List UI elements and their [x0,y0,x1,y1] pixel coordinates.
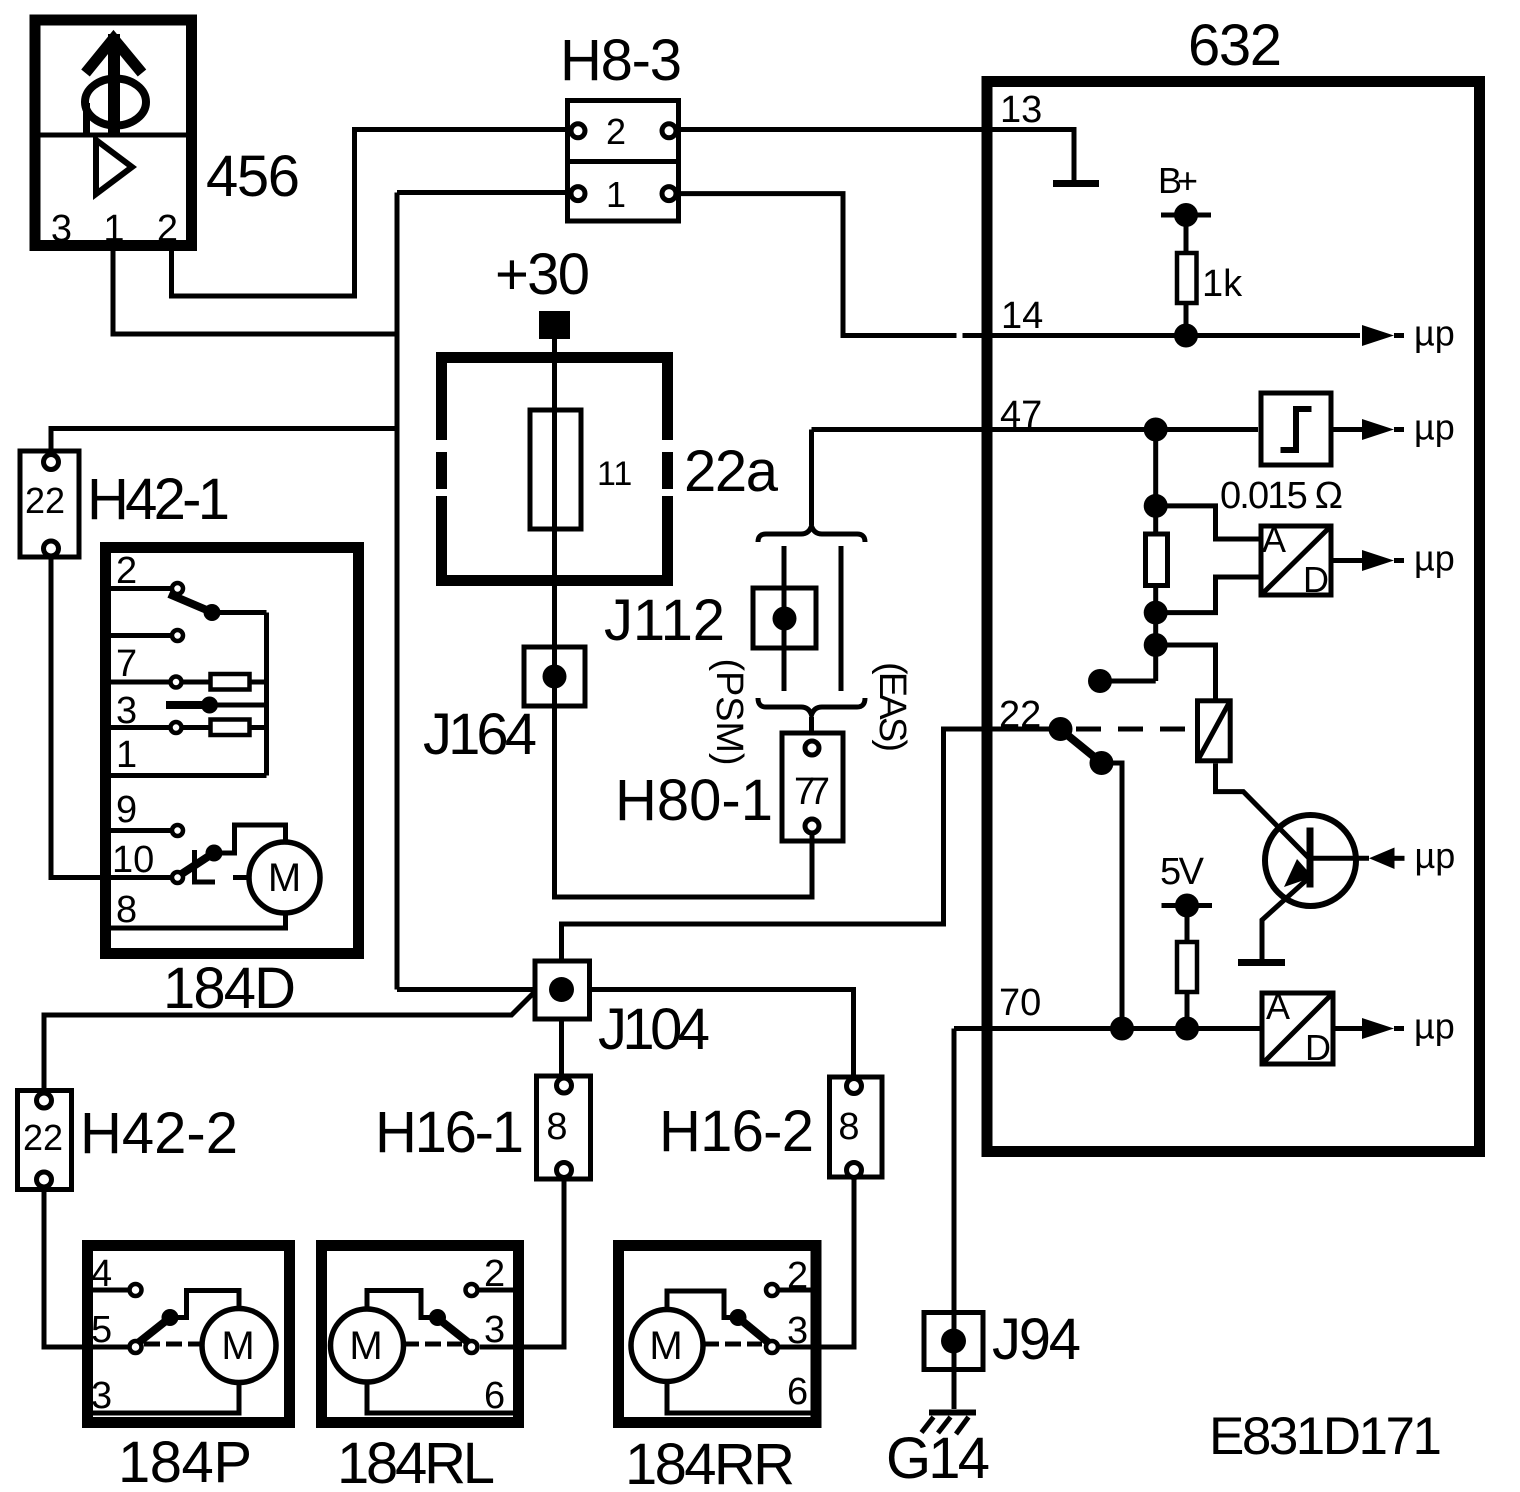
svg-text:47: 47 [1000,394,1042,436]
wire H42-1 top to node [51,429,397,456]
184D pin 3 row with resistor [100,725,267,730]
svg-text:184RL: 184RL [337,1431,495,1492]
tap to relay coil [1156,645,1216,700]
connector H8-3 box [568,101,679,222]
wire relay to transistor base [1216,763,1310,858]
switch contact dot pin22 [1049,717,1073,741]
svg-text:3: 3 [51,208,72,250]
184D motor left stub [233,875,250,880]
svg-text:J104: J104 [598,997,710,1062]
svg-text:H16-2: H16-2 [659,1099,814,1164]
connector H42-2 box [18,1091,72,1190]
svg-text:A: A [1262,519,1286,560]
svg-text:H8-3: H8-3 [560,28,682,93]
H8-3 pin circles [571,124,585,138]
184D nc contact row [100,633,172,638]
svg-text:A: A [1266,986,1290,1027]
svg-text:µp: µp [1414,407,1455,448]
J94 junction dot [941,1329,966,1354]
wire J104 to 632 pin22 [562,729,1050,959]
184D switch arm pin2 [169,594,209,611]
B+ terminal bar [1161,213,1211,218]
svg-text:456: 456 [206,144,300,209]
motor unit 184RL box [322,1246,519,1423]
svg-text:J164: J164 [423,702,537,767]
wire pin47 to brace [809,430,814,526]
svg-text:µp: µp [1414,538,1455,579]
shunt taps to A/D [1156,506,1261,539]
wire H16-1 to 184RL pin3 [480,1178,564,1348]
wire brace to H80-1 [809,717,814,733]
svg-text:H80-1: H80-1 [615,768,773,833]
transistor emitter to ground [1262,880,1307,960]
184D link dot to motor top [214,825,286,853]
svg-text:J94: J94 [992,1307,1081,1372]
fuse 11 body [530,410,581,529]
svg-text:1k: 1k [1202,263,1243,305]
wire node to J104 [397,987,535,992]
junction J164 box [524,647,585,706]
5V pull resistor [1185,906,1190,1029]
184D inner right rail [264,613,269,776]
antenna unit 184D box [106,548,359,954]
wire pivot to pin70 net [1102,763,1123,1029]
transistor Q [1265,815,1356,906]
switch unit 456 box [35,20,192,246]
junction J94 box [924,1313,983,1370]
motor M in 184RR [631,1310,703,1382]
svg-text:µp: µp [1415,835,1456,876]
arrow to microprocessor pin47 [1334,427,1366,432]
wire H42-2 to 184P pin5 [44,1187,130,1347]
junction J112 box [753,588,816,648]
184RL dashed contact [403,1342,462,1347]
resistor 1k [1184,215,1189,336]
wire 456 pin2 to H8-3 pin2 [172,130,572,297]
svg-text:H42-2: H42-2 [80,1101,238,1166]
svg-text:8: 8 [838,1106,859,1148]
5V terminal bar [1162,903,1213,908]
ECU 632 box [987,82,1480,1152]
wire PSM branch [782,546,787,691]
456 divider [30,133,192,138]
svg-text:G14: G14 [886,1426,990,1491]
svg-text:D: D [1303,559,1329,600]
shunt resistor body [1146,534,1168,586]
ground G14 symbol [922,1413,977,1435]
pin22 internal wire [993,727,1049,732]
184D detent mark [195,850,216,882]
arrow to microprocessor pin14 [1362,325,1394,346]
svg-text:µp: µp [1414,1006,1455,1047]
relay coil [1198,701,1231,761]
svg-text:B+: B+ [1158,160,1198,201]
connector H80-1 box [782,733,843,841]
svg-text:3: 3 [484,1309,505,1351]
svg-text:184RR: 184RR [625,1432,795,1492]
svg-text:8: 8 [546,1106,567,1148]
svg-text:D: D [1305,1027,1331,1068]
schmitt trigger box [1261,393,1331,465]
svg-text:M: M [649,1324,682,1368]
svg-text:2: 2 [606,111,626,152]
wire main vertical net [395,193,400,990]
svg-text:6: 6 [787,1371,808,1413]
svg-text:184D: 184D [163,956,296,1021]
184RR dashed contact [703,1342,762,1347]
svg-text:5V: 5V [1160,851,1205,893]
wire H8-3 pin1 to 632 pin14 [676,194,1360,336]
wire H42-1 bottom to 184D pin10 [51,556,172,878]
184RL link to motor [367,1291,438,1318]
A/D converter 2 [1262,993,1333,1064]
connector H42-1 box [20,451,79,557]
svg-text:9: 9 [116,789,137,831]
184P link to motor [170,1291,239,1318]
svg-text:H42-1: H42-1 [87,467,230,532]
A/D converter 1 [1261,526,1331,595]
wire H8-3 pin2 to 632 pin13 and ground [676,130,1074,181]
svg-text:70: 70 [999,982,1041,1024]
svg-text:7: 7 [116,643,137,685]
svg-text:13: 13 [1000,89,1042,131]
svg-text:H16-1: H16-1 [375,1100,524,1165]
svg-text:3: 3 [787,1310,808,1352]
svg-text:+30: +30 [495,242,590,307]
arrow from microprocessor to transistor [1369,848,1395,870]
J104 junction dot [549,977,574,1002]
connector H16-2 box [830,1077,883,1177]
J164 junction dot [543,665,567,689]
svg-text:1: 1 [606,174,626,215]
svg-text:0.015 Ω: 0.015 Ω [1220,475,1343,517]
+30 terminal square [539,311,570,339]
svg-text:11: 11 [597,455,632,493]
svg-text:E831D171: E831D171 [1209,1407,1442,1466]
wire to H8-3 pin1 [397,190,571,195]
184RR link to motor [667,1291,738,1318]
arrow to microprocessor A/D2 [1336,1026,1366,1031]
svg-text:2: 2 [157,208,178,250]
svg-text:632: 632 [1188,13,1282,78]
play triangle symbol [96,140,132,194]
motor M in 184P [202,1309,276,1383]
svg-text:77: 77 [794,771,830,813]
svg-text:(PSM): (PSM) [708,659,750,766]
upper brace [758,526,865,542]
svg-text:8: 8 [116,889,137,931]
antenna arrow symbol [85,34,146,134]
motor unit 184P box [88,1246,290,1423]
wire 456 pin1 to node [113,251,397,334]
junction J104 box [535,961,590,1019]
switch arm inside 632 [1063,732,1098,761]
wire J104 to H16-2 [590,990,854,1079]
wire pin70 to J94 and ground [952,1029,957,1410]
connector H16-1 box [537,1076,591,1179]
svg-text:2: 2 [116,550,137,592]
ground inside 632 at pin13 [1053,180,1099,187]
svg-text:5: 5 [91,1309,112,1351]
svg-text:14: 14 [1001,295,1043,337]
pin70 wire [954,1026,1262,1031]
shunt net vertical [1153,430,1158,682]
svg-text:10: 10 [112,839,154,881]
lower brace [758,698,865,715]
svg-text:J112: J112 [604,588,725,653]
svg-text:1: 1 [103,208,124,250]
svg-text:22a: 22a [684,439,779,504]
svg-text:22: 22 [23,1117,63,1158]
svg-text:22: 22 [25,480,65,521]
wire H16-2 to 184RR pin3 [780,1178,854,1348]
dashed actuation link [1076,727,1195,732]
fuse box 22a dashed enclosure [436,352,673,586]
upper contact to 47 net [1100,679,1156,684]
wire EAS branch [839,546,844,691]
motor M in 184D [249,842,320,913]
184P dashed contact [144,1342,202,1347]
svg-text:1: 1 [116,734,137,776]
wire from +30 through fuse to J164 and H80-1 [555,339,813,897]
svg-text:M: M [268,856,301,900]
svg-text:(EAS): (EAS) [871,662,913,752]
svg-text:M: M [221,1324,254,1368]
svg-text:M: M [349,1324,382,1368]
wire J104 to H16-1 [559,1019,564,1078]
wire H42-2 to J104 diagonal [44,992,535,1094]
svg-text:184P: 184P [118,1430,252,1492]
arrow to microprocessor A/D1 [1334,558,1366,563]
svg-text:µp: µp [1414,313,1455,354]
J112 junction dot [773,607,797,631]
emitter ground bar [1238,959,1285,966]
motor unit 184RR box [619,1246,817,1423]
motor M in 184RL [331,1309,404,1382]
junction dot pin14 net [1174,324,1198,348]
